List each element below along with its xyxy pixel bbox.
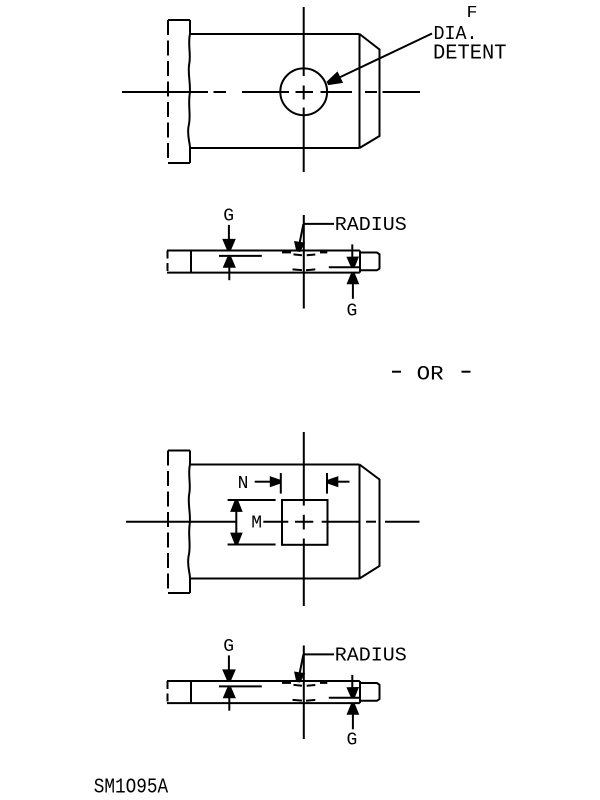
joggle dash e <box>293 268 303 271</box>
G left lower arrowhead <box>223 687 236 698</box>
view3 flange right edge lower <box>189 579 191 594</box>
svg-text:SM1O95A: SM1O95A <box>94 776 169 800</box>
view1 horizontal centerline seg2 <box>214 91 227 93</box>
sideview tip divider <box>359 681 361 703</box>
view1 vertical centerline lower <box>303 108 305 173</box>
joggle dash c <box>307 684 316 687</box>
M upper arrowhead (points up) <box>230 501 243 512</box>
view3 vertical centerline upper <box>303 432 305 506</box>
view1 flange right edge lower <box>189 148 191 163</box>
svg-text:G: G <box>223 207 234 227</box>
view1 horizontal centerline seg1 <box>122 91 208 93</box>
view1 body top edge <box>190 33 360 35</box>
G left upper arrowhead <box>222 669 236 681</box>
G right upper arrowhead <box>346 256 359 267</box>
view1 leader arrowhead <box>327 71 344 85</box>
svg-text:OR: OR <box>417 363 444 386</box>
N right arrow line <box>338 481 350 483</box>
view3 flange left edge (hidden, dashed) <box>167 451 169 594</box>
joggle dash b <box>294 684 303 687</box>
RADIUS leader horizontal <box>304 653 334 655</box>
G right upper arrowhead <box>346 687 359 698</box>
joggle dash a <box>282 251 291 253</box>
svg-text:M: M <box>251 513 262 533</box>
view1 horizontal centerline center dash <box>296 91 314 93</box>
view3 vertical centerline lower <box>303 539 305 607</box>
M lower arrowhead (points down) <box>230 533 243 544</box>
view1 detent hole (circle) <box>280 68 327 115</box>
view3 flange top edge <box>168 450 190 452</box>
view1 flange left edge (hidden, dashed) <box>167 20 169 163</box>
view3 body right edge <box>359 465 361 579</box>
view3 horizontal centerline center dash <box>295 521 313 523</box>
sideview bottom edge <box>167 272 360 274</box>
RADIUS leader diagonal <box>300 224 304 242</box>
G left lower arrow line <box>228 697 230 711</box>
G right lower arrow line <box>352 714 354 730</box>
svg-text:G: G <box>223 637 234 657</box>
sideview right inner sheet line <box>329 697 360 699</box>
joggle dash a <box>282 682 291 684</box>
svg-text:G: G <box>347 731 358 751</box>
view1 flange right edge upper <box>189 20 191 34</box>
view3 flange/body break line (wavy) <box>188 465 190 579</box>
sideview top edge <box>167 680 360 682</box>
svg-text:RADIUS: RADIUS <box>335 214 407 236</box>
view3 horizontal centerline seg4 <box>366 521 376 523</box>
view1 flange/body break line (wavy) <box>188 34 190 148</box>
joggle dash d <box>320 682 327 684</box>
view3 flange right edge upper <box>189 451 191 465</box>
sideview left edge dashed <box>167 251 169 273</box>
view3 square detent hole <box>282 500 328 545</box>
M bottom extension line <box>228 544 276 546</box>
sideview vertical centerline <box>303 215 305 309</box>
OR left dash <box>392 371 401 373</box>
svg-text:DETENT: DETENT <box>433 42 507 65</box>
N right arrowhead (points left) <box>328 476 339 487</box>
G left upper arrowhead <box>222 239 236 251</box>
view1 body bottom edge <box>190 147 360 149</box>
view3 body bottom edge <box>190 578 360 580</box>
G right upper arrow line <box>351 244 353 257</box>
sideview flange divider <box>190 681 192 703</box>
N right extension line <box>326 473 328 494</box>
OR right dash <box>462 371 471 373</box>
G right lower arrowhead <box>347 704 360 715</box>
sideview tip outline <box>360 683 380 701</box>
view1 flange bottom edge <box>168 162 190 164</box>
view3 horizontal centerline seg5 <box>385 521 420 523</box>
view1 leader line <box>339 34 433 78</box>
G right lower arrow line <box>352 283 354 299</box>
sideview top edge <box>167 250 360 252</box>
G left upper arrow line <box>228 225 230 239</box>
sideview left edge dashed <box>167 681 169 703</box>
sideview vertical centerline <box>303 646 305 740</box>
joggle dash f <box>306 699 315 702</box>
N left extension line <box>280 473 282 494</box>
M dimension line <box>235 510 237 534</box>
joggle dash e <box>293 699 303 702</box>
view3 horizontal centerline seg1 <box>126 521 236 523</box>
view3 horizontal centerline seg2 <box>263 521 288 523</box>
view1 horizontal centerline seg3 <box>242 91 289 93</box>
view3 body top edge <box>190 464 360 466</box>
sideview left inner sheet line <box>219 255 262 257</box>
sideview left inner sheet line <box>219 685 262 687</box>
view1 chamfered tip outline <box>360 34 380 148</box>
view1 horizontal centerline seg5 <box>365 91 377 93</box>
joggle dash c <box>307 254 316 257</box>
RADIUS leader horizontal <box>304 223 334 225</box>
G right upper arrow line <box>351 675 353 688</box>
view1 vertical centerline upper <box>303 7 305 76</box>
joggle dash b <box>294 253 303 256</box>
G right lower arrowhead <box>347 273 360 284</box>
sideview right inner sheet line <box>329 266 360 268</box>
svg-text:RADIUS: RADIUS <box>335 645 407 667</box>
N left arrowhead (points right) <box>270 476 281 487</box>
joggle dash f <box>306 268 315 271</box>
svg-text:F: F <box>467 3 478 22</box>
view1 body right edge <box>359 34 361 148</box>
view1 horizontal centerline seg4 <box>321 91 353 93</box>
G left lower arrowhead <box>223 257 236 268</box>
svg-text:G: G <box>347 301 358 321</box>
view1 horizontal centerline seg6 <box>383 91 421 93</box>
G left lower arrow line <box>228 267 230 281</box>
M top extension line <box>228 499 276 501</box>
RADIUS leader diagonal <box>300 654 304 672</box>
view1 vertical centerline center dash <box>303 86 305 100</box>
view3 chamfered tip outline <box>360 465 380 579</box>
view3 vertical centerline center dash <box>303 515 305 530</box>
RADIUS arrowhead <box>294 672 305 683</box>
sideview tip outline <box>360 253 380 271</box>
RADIUS arrowhead <box>294 241 305 252</box>
joggle dash d <box>320 251 327 253</box>
view3 flange bottom edge <box>168 592 190 594</box>
sideview bottom edge <box>167 702 360 704</box>
sideview tip divider <box>359 251 361 273</box>
svg-text:N: N <box>238 474 249 494</box>
G left upper arrow line <box>228 655 230 669</box>
N left arrow line <box>255 481 271 483</box>
sideview flange divider <box>190 251 192 273</box>
view1 flange top edge <box>168 19 190 21</box>
view3 horizontal centerline seg3 <box>322 521 360 523</box>
